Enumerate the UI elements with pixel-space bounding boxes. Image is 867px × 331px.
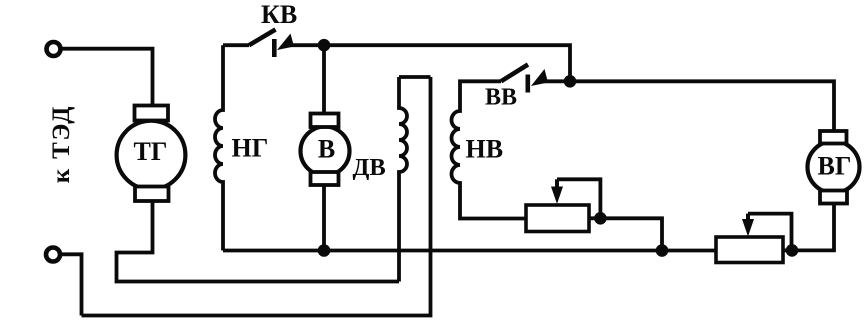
rheostat R1 wiper arrow shaft [555, 179, 559, 189]
machine VG brush bottom [820, 191, 847, 204]
junction dot R2 output [786, 244, 799, 257]
winding NG (vertical with 4 left bumps) [215, 45, 223, 250]
svg-text:НГ: НГ [232, 134, 269, 163]
machine TG brush top [135, 106, 169, 121]
junction dot R1 output [594, 212, 607, 225]
machine B brush bottom [311, 172, 339, 185]
junction dot at B bottom [318, 244, 331, 257]
machine B armature circle [301, 127, 350, 176]
wire B top [322, 45, 326, 113]
wire VG bottom to R2 output [783, 204, 834, 251]
wire VV to junction [536, 79, 570, 83]
wire R1 wiper link [557, 179, 600, 218]
wire top line KV to VV drop [283, 45, 570, 81]
junction dot VV line [564, 75, 577, 88]
terminal X2 (к ТЭД lower) [46, 248, 60, 262]
wire NG top to switch KV hinge [223, 43, 249, 47]
svg-text:ВГ: ВГ [818, 152, 852, 181]
switch VV fixed contact arrow [531, 69, 548, 86]
wire TG bottom to DV winding bottom [117, 201, 400, 282]
switch KV blade [249, 30, 276, 46]
wire long bottom line NG to rheostat R2 [223, 249, 716, 253]
machine VG brush top [820, 131, 847, 144]
svg-text:В: В [318, 135, 335, 164]
svg-text:НВ: НВ [466, 135, 504, 164]
wire R1 output to bottom line [589, 218, 662, 250]
svg-text:ВВ: ВВ [485, 85, 517, 111]
winding NV (vertical with 4 left bumps) [452, 81, 526, 218]
machine B brush top [311, 114, 339, 128]
junction dot R1 branch on bottom line [656, 244, 669, 257]
junction dot at B top [318, 39, 331, 52]
svg-text:ДВ: ДВ [353, 154, 386, 181]
rheostat R2 wiper arrow shaft [746, 214, 750, 222]
rheostat R1 wiper arrowhead [551, 187, 563, 205]
wire B bottom [322, 185, 326, 251]
machine TG armature circle [117, 121, 186, 190]
switch KV fixed contact bar [272, 39, 277, 57]
wire X2 to bottom return [62, 254, 82, 315]
rheostat R1 body [526, 205, 589, 232]
machine VG armature circle [808, 141, 860, 193]
wire junction to VG top [570, 81, 834, 131]
wire R2 wiper link [748, 214, 792, 251]
svg-text:КВ: КВ [261, 0, 297, 29]
switch VV blade [501, 65, 528, 82]
wire DV return to bottom line [82, 77, 431, 316]
switch VV fixed contact bar [526, 75, 531, 93]
rheostat R2 wiper arrowhead [742, 219, 754, 237]
rheostat R2 body [716, 237, 783, 263]
svg-text:ТГ: ТГ [134, 137, 168, 166]
terminal X1 (к ТЭД upper) [47, 42, 61, 56]
svg-text:к ТЭД: к ТЭД [48, 105, 75, 183]
machine TG brush bottom [135, 187, 169, 202]
wire X1 to TG top [62, 49, 153, 106]
switch KV fixed contact arrow [277, 34, 294, 51]
winding DV (vertical with 4 left bumps) [399, 77, 407, 282]
wire DV hairpin top link [399, 75, 431, 79]
